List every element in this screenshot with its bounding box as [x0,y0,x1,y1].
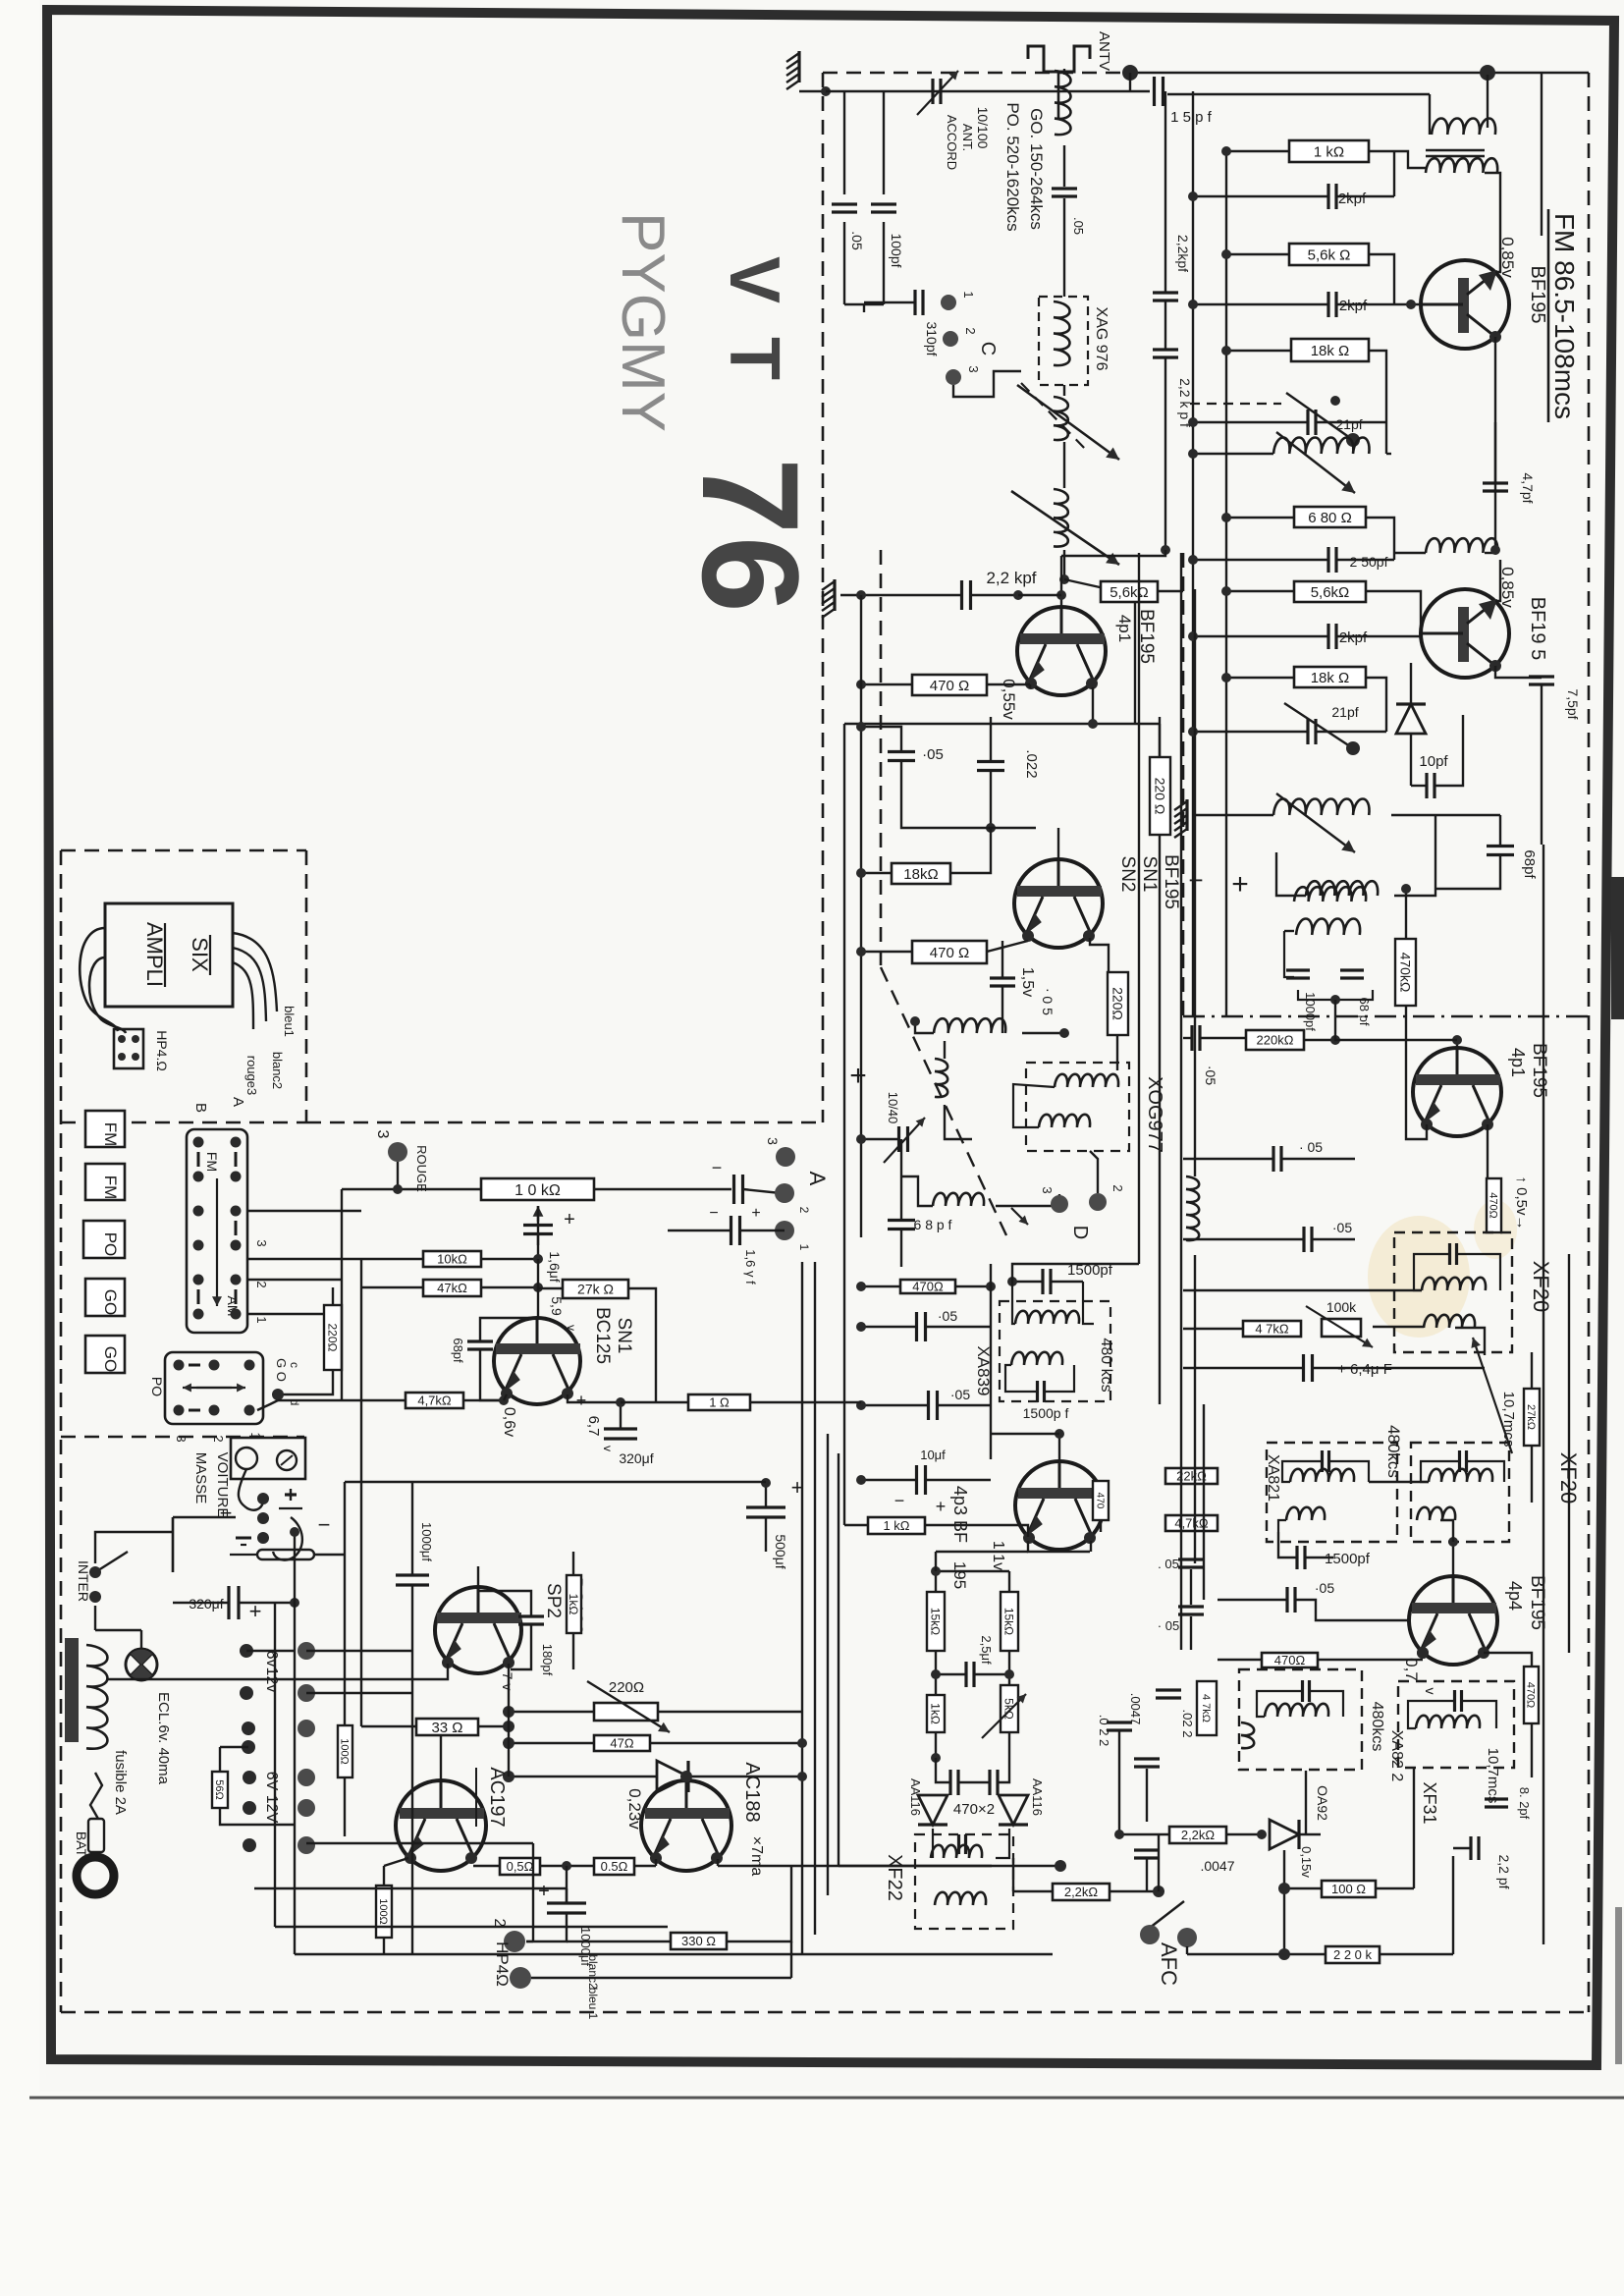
junction [856,868,866,878]
switch dot R [231,1172,242,1182]
right edge scan mark [1615,1907,1622,2064]
coil xa822 [1265,1704,1328,1717]
capacitor .022 [977,762,1004,771]
wire coil3 r [1485,552,1495,554]
svg-text:v: v [601,1446,615,1451]
paper stain small [1474,1200,1517,1259]
wire cap down [843,222,845,304]
dashed box XAG976 [1039,297,1088,385]
junction l [856,590,866,600]
diode 0,23v [657,1761,688,1792]
svg-text:68pf: 68pf [451,1338,465,1363]
junction [1221,146,1231,156]
junction [1188,449,1198,459]
coil osc small [933,1193,984,1206]
wire 220v1 down [1159,835,1161,1070]
resistor 100Ω v2 [376,1886,392,1938]
junction [856,1322,866,1332]
junction sn mid [986,823,996,833]
capacitor 250pf [1328,547,1336,573]
wire t2 left [1193,731,1307,733]
resistor 18kΩ mid [892,863,950,884]
wire blk1 [247,1210,361,1212]
MASSE block [231,1438,305,1479]
junction [856,947,866,957]
trimmer 21pf b [1284,703,1360,755]
svg-text:2 50pf: 2 50pf [1350,554,1388,570]
svg-text:6V 12V: 6V 12V [263,1772,280,1824]
svg-text:blanc2: blanc2 [586,1954,600,1990]
capacitor 68pf af [467,1341,493,1349]
wire xa821 w2 [1330,1461,1369,1482]
wire 68 conn [1435,814,1500,816]
capacitor 1,6µf A [731,1216,740,1245]
wire ifa l [1183,1037,1191,1039]
wire 1500a l [1012,1281,1042,1283]
transistor AC188 [641,1780,731,1871]
junction c4p1 [1088,719,1098,729]
wire 737 to 220 [1159,724,1161,757]
junction 220v3 [272,1389,284,1400]
wire 330 l [567,1941,671,1942]
wire 4p4 base [1452,1542,1454,1576]
wire r2 right [1369,254,1394,304]
ground top-left [786,51,799,89]
capacitor 1000µf af [396,1575,429,1585]
svg-text:480kcs: 480kcs [1369,1702,1385,1752]
wire rail 1710 [108,1678,412,1680]
wire emitter down [1029,684,1031,688]
junction [1278,1883,1290,1894]
wire 15k h [936,1570,1009,1572]
svg-text:1 Ω: 1 Ω [709,1395,730,1410]
junction [499,1395,509,1405]
wire 1500 r [1306,1557,1333,1558]
svg-text:10/40: 10/40 [886,1092,900,1124]
svg-text:68 pf: 68 pf [1357,998,1372,1026]
wire 64 l [1183,1367,1303,1369]
wire down to 310pf [863,304,865,312]
resistor 15kΩ v1 [927,1592,945,1651]
dashed diagonal (tuning gang link) [881,967,1006,1235]
svg-text:A: A [230,1097,246,1107]
svg-text:68pf: 68pf [1521,849,1538,879]
svg-text:4 7kΩ: 4 7kΩ [1200,1694,1212,1722]
underline SIX [209,935,211,975]
wire right bus 2 [1568,1254,1570,1653]
svg-text:10,7mcs: 10,7mcs [1485,1748,1501,1804]
wire 05a l [473,1865,500,1867]
wire xf20b r [1455,1328,1485,1355]
coil sec [1306,881,1378,896]
wire c xf [1218,1599,1286,1601]
pot 220Ω drv [587,1681,670,1732]
svg-text:MASSE: MASSE [192,1452,209,1504]
wire join y310 [844,303,884,305]
wire 1kv d [935,1732,937,1758]
capacitor 10pf [1427,773,1435,798]
ampli out wires [233,933,277,1011]
terminal A2 [775,1183,794,1203]
svg-text:47kΩ: 47kΩ [437,1281,467,1295]
resistor 2,2kΩ b [1053,1884,1110,1900]
junction 4p4 em [1417,1647,1429,1659]
wire coil mid right [1386,453,1391,455]
coil xf20 b [1424,1315,1475,1328]
svg-text:10,7mcs: 10,7mcs [1500,1392,1517,1448]
coil xf2 [1429,1469,1492,1482]
capacitor .022 a [1107,1722,1132,1730]
capacitor .05 r1 [1273,1146,1281,1172]
wire xa839 b [1005,1365,1036,1392]
wire diode down [1410,734,1412,786]
wire 47kb l [361,1286,423,1288]
transistor SN2 SN1 BF195 [1014,859,1103,948]
underline AC197 [475,1768,477,1827]
wire lamp up [140,1630,142,1649]
transformer core lines [1426,149,1485,151]
wire xf31 dn [1413,1768,1415,1888]
svg-text:2: 2 [963,327,978,334]
wire 05r [926,1326,991,1328]
wire rail420 b [411,1620,413,1954]
svg-text:47Ω: 47Ω [610,1736,633,1751]
svg-text:XA821: XA821 [1265,1454,1281,1502]
wire 100v1 up [344,1482,346,1725]
capacitor xa839 c [1038,1381,1045,1402]
wire lamp h [94,1606,96,1630]
arrow FM-AM [212,1178,222,1306]
svg-text:7,5pf: 7,5pf [1565,688,1581,719]
transistor 4p1 BF195 (AM conv) [1017,607,1106,695]
wire 22k l [1119,1833,1169,1835]
wire 22pf c [1453,1847,1470,1849]
wire base BF195a [1394,303,1421,305]
wire 470b l [861,951,912,953]
capacitor 68pf RF [1487,847,1514,855]
wire 320pw r [239,1602,295,1604]
transistor 4p4 BF195 [1409,1576,1497,1665]
svg-text:1000μf: 1000μf [419,1522,434,1561]
junction [761,1478,771,1488]
wire vol l [342,1188,481,1190]
wire xf20 w [1414,1254,1448,1290]
dashed AMPLI box right [305,850,308,1122]
wire 4p3 base [1058,1434,1060,1461]
svg-text:ANT.: ANT. [960,124,975,151]
wire 1500 l [1278,1532,1296,1558]
svg-text:0,15v: 0,15v [1299,1846,1314,1878]
dashed power-box top [61,1436,304,1439]
resistor 10kΩ b [423,1251,481,1267]
wire 022a dn [1118,1730,1120,1834]
resistor 4,7kΩ r [1165,1515,1218,1531]
capacitor 1000µf out [547,1903,586,1913]
resistor 100Ω v1 [338,1725,352,1777]
svg-text:10kΩ: 10kΩ [437,1252,467,1267]
wire bus J [838,1453,839,1866]
coil XAG976 [1054,301,1070,365]
wire col v3 [1164,357,1166,550]
svg-text:3: 3 [765,1137,781,1145]
wire 5k d [1008,1732,1010,1758]
wire 470xf r [1318,1659,1423,1661]
capacitor 2kpf a [1328,184,1336,209]
diode OA92 [1270,1820,1299,1849]
wire sp2 coll [508,1664,510,1675]
svg-text:. 05: . 05 [1158,1557,1179,1571]
junction top bus [821,86,831,96]
capacitor 100pf input [871,204,896,212]
coil xa822 sec [1241,1722,1254,1748]
wire r6 right [1366,678,1386,732]
junction ant bus [1122,65,1138,81]
coil mix out [934,1018,1005,1033]
junction [986,1282,996,1291]
svg-text:·05: ·05 [938,1308,957,1324]
capacitor 15pf [1155,77,1164,106]
svg-text:1,1v: 1,1v [990,1541,1006,1570]
wire xf20 in [1183,1289,1422,1291]
BAT ring [77,1857,114,1894]
junction [1221,513,1231,522]
wire 220v3 up [332,1287,334,1305]
svg-text:27k Ω: 27k Ω [577,1282,614,1297]
svg-text:VT: VT [715,256,793,413]
wire bus I [827,1434,829,1895]
svg-text:ANTV: ANTV [1096,31,1112,71]
wire sn2 c [1001,941,1003,977]
wire left drop 1 [843,91,845,194]
wire base h [991,1433,1059,1435]
wire 47kb r [481,1286,538,1288]
capacitor 180pf [518,1616,544,1624]
wire coil5 [1276,852,1306,896]
wire sn2 c2 [1001,987,1003,1033]
terminal HP1 [510,1967,531,1989]
svg-text:3: 3 [966,365,981,372]
svg-text:1: 1 [254,1316,269,1323]
svg-text:+: + [751,1205,760,1222]
wire 4p3 coll [1090,1541,1092,1552]
GO/PO switch block [165,1352,263,1424]
wire col to 4p1 [1061,550,1165,556]
svg-text:bleu1: bleu1 [282,1006,297,1037]
wire 56k r [1158,590,1183,592]
wire osc sm [901,1176,933,1206]
junction [1406,300,1416,309]
svg-text:GO: GO [101,1346,120,1372]
underline AMPLI [164,923,166,987]
underline FM band [1547,209,1550,422]
svg-text:.0047: .0047 [1128,1693,1143,1725]
resistor 1Ω [688,1394,750,1410]
junction [856,1282,866,1291]
wire 100v2 up [383,1866,385,1886]
capacitor 2kpf c [1328,624,1336,649]
dashed box XF31 [1398,1681,1514,1768]
svg-text:↑ 0,5v→: ↑ 0,5v→ [1513,1175,1530,1230]
wire 470c l [861,1285,900,1287]
svg-text:A: A [805,1172,830,1186]
wire collector sn [1090,938,1109,972]
svg-text:.02 2: .02 2 [1180,1710,1195,1738]
wire col1 wire [246,1650,295,1652]
wire 4p1 base bus [1018,594,1061,596]
wire right bus long [1543,845,1544,1944]
junction [931,1753,941,1763]
resistor 18kΩ a [1291,339,1369,361]
wire coil [1063,69,1065,75]
wire 4p1b base [1456,1040,1458,1048]
svg-text:1000pf: 1000pf [1303,992,1318,1031]
wire coil mid left [1193,453,1273,455]
wire fuse r [314,1554,344,1556]
svg-text:10μf: 10μf [920,1448,946,1462]
wire 15k1 d [935,1651,937,1695]
svg-text:XOG977: XOG977 [1144,1076,1165,1153]
wire A1 [740,1230,785,1231]
svg-text:1: 1 [961,291,976,298]
wire r2 left [1226,253,1289,255]
junction [533,1254,543,1264]
wire emitter up [1495,236,1500,272]
switch AFC [1150,1901,1184,1928]
junction mix [910,1016,920,1026]
dashed box 480kcs right [1411,1443,1509,1542]
coil tuned 2 (arrow) [1273,793,1370,852]
wire 22kpf l [840,594,961,596]
wire 22pf dn [1452,1856,1454,1954]
junction [797,1738,807,1748]
wire bus C [1180,553,1182,1650]
svg-text:470kΩ: 470kΩ [1397,953,1413,993]
go/po bars [189,1364,200,1367]
wire 64 r [1313,1367,1485,1369]
coil xf31 in [1416,1716,1480,1728]
svg-text:INTER: INTER [76,1560,91,1602]
wire ac em [655,1859,657,1866]
wire 1500a up [1012,1264,1139,1282]
wire col2 wires [306,1650,412,1652]
wire 500 up [765,1483,767,1507]
wire c4 right [1337,559,1394,561]
svg-text:BF195: BF195 [1161,854,1181,909]
wire 470c r [955,1285,991,1287]
capacitor .05 input [832,204,857,212]
wire c3 right [1337,303,1394,305]
wire inter up [95,1532,173,1563]
svg-text:·05: ·05 [1332,1220,1352,1235]
wire 47af l [278,1399,406,1401]
capacitor xf22 [959,1834,966,1854]
junction [1055,1429,1064,1439]
capacitor 1000pf IF1 [1286,970,1310,978]
coil XOG977 top [1055,1074,1118,1087]
svg-text:AA116: AA116 [908,1778,923,1816]
svg-text:2: 2 [797,1207,811,1214]
tuning arrow 2 [1011,491,1119,565]
capacitor 1500pf a [1043,1269,1051,1294]
resistor 4,7kΩ af [406,1393,463,1408]
dashed stub 21pf [1190,403,1281,405]
capacitor 1,6µf vol [734,1175,743,1204]
wire col v1 [1164,91,1166,293]
coil osc 3 [1054,489,1068,547]
wire sp2 em [412,1664,448,1679]
transistor AC197 [396,1780,486,1871]
wire c r4 [1313,1238,1355,1240]
wire coll up [1134,591,1136,724]
wire 05a r [540,1865,594,1867]
wire bot left h [295,1953,802,1955]
switch dot L [193,1206,204,1217]
junction [616,1397,625,1407]
wire r5 left [1226,590,1294,592]
wire 470a l [861,683,912,685]
svg-text:XA8̷2 2: XA8̷2 2 [1388,1730,1405,1782]
terminal 6v12v dots col1 [240,1644,253,1658]
switch dot L [193,1240,204,1251]
switch dot L [193,1137,204,1148]
resistor 100Ω det [1322,1881,1376,1897]
switch C contact 2 [943,331,958,347]
svg-text:+: + [538,1881,550,1902]
wire bus 860 [843,724,845,1525]
svg-text:· 05: · 05 [1158,1618,1179,1633]
svg-text:PO: PO [149,1377,165,1396]
terminal A3 [776,1147,795,1167]
switch dot R [231,1309,242,1320]
resistor 1kΩ v [927,1695,945,1732]
wire 0047a [1146,1769,1148,1822]
svg-text:2,2kpf: 2,2kpf [1175,235,1191,272]
wire left v2 [341,1189,343,1400]
wire collector down [1494,337,1496,550]
wire 052l [861,1404,928,1406]
wire 22kb bus [1158,1834,1160,1891]
wire ant-bus vertical [1129,73,1131,91]
fuse body [257,1550,314,1559]
wire 0047b dn [1146,1858,1148,1891]
wire bus D [1194,589,1196,1176]
wire 1k r [925,1525,1028,1537]
svg-text:2,2kΩ: 2,2kΩ [1064,1885,1099,1899]
svg-text:0.5Ω: 0.5Ω [601,1859,628,1874]
wire r6 left [1226,677,1294,679]
svg-text:500μf: 500μf [773,1534,788,1568]
wire sp2 b2 [411,1585,413,1620]
svg-text:PYGMY: PYGMY [609,212,677,432]
pot 100k [1306,1306,1373,1347]
capacitor .05 xa l [917,1312,926,1341]
wire coil2 to trans [1485,173,1500,236]
svg-text:220Ω: 220Ω [609,1679,644,1696]
wire blk4 [247,1313,324,1315]
svg-text:XF22: XF22 [884,1854,905,1901]
wire 5,9 v [537,1259,539,1318]
switch C contact 1 [941,295,956,310]
capacitor .0047 b [1134,1850,1160,1858]
wire v mid2 [1190,1616,1192,1650]
wire 1000 up [566,1866,568,1903]
svg-text:ROUGE: ROUGE [414,1145,429,1192]
junction [290,1527,299,1537]
svg-text:FM: FM [101,1175,120,1200]
terminal 3 ROUGE [388,1142,407,1162]
svg-text:rouge3: rouge3 [244,1056,259,1095]
wire sec a [1278,1520,1286,1532]
